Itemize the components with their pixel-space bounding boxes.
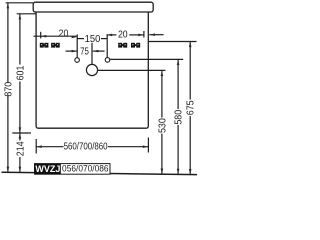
small circle right (105, 58, 110, 63)
mounting slots left group (40, 43, 60, 48)
extension line big circle (91, 43, 93, 65)
arrow 214 bottom (19, 167, 22, 173)
svg-text:20: 20 (59, 28, 69, 39)
top reference line (6, 2, 34, 4)
bottom baseline (2, 172, 198, 174)
arrow 560 right (143, 145, 149, 148)
reference line 675 (149, 41, 197, 43)
label 530 (156, 118, 168, 133)
arrow 601 bottom (19, 127, 22, 133)
arrow 530 bottom (161, 169, 164, 175)
label 601 (14, 66, 26, 81)
arrow at unit right edge (149, 33, 155, 36)
svg-text:675: 675 (184, 100, 196, 115)
dimension 75 lines (66, 50, 78, 52)
svg-text:150: 150 (85, 34, 101, 45)
arrow 870 top (7, 3, 10, 9)
countertop (33, 2, 153, 12)
arrow 580 top (177, 59, 180, 65)
dimension 601 line (19, 14, 21, 65)
arrow 75 right (93, 50, 99, 53)
dimension 870 line (7, 3, 9, 83)
slot white centers left (41, 44, 58, 45)
mounting slots right group (118, 43, 140, 48)
arrow 20-right right (138, 34, 144, 37)
arrow 214 top (19, 133, 22, 139)
slot white centers right (120, 44, 139, 45)
extension tick x148.4 bottom (147, 138, 149, 153)
svg-text:20: 20 (118, 29, 128, 40)
dimension 214 line (19, 133, 21, 141)
reference line 580 (110, 58, 183, 60)
svg-text:75: 75 (80, 46, 89, 57)
arrow 75 left (72, 50, 78, 53)
arrow 675 top (189, 42, 192, 48)
extension line left circle (76, 34, 78, 57)
dimension 580 line (177, 59, 179, 109)
extension tick x40.7 (40, 32, 42, 39)
unit top reference line (17, 13, 36, 15)
arrow 560 left (36, 145, 42, 148)
dimension line 20 right (107, 34, 117, 36)
dimension 675 line (189, 42, 191, 100)
unit body outline (36, 12, 148, 129)
svg-text:560/700/860: 560/700/860 (64, 140, 108, 151)
svg-text:214: 214 (14, 141, 26, 156)
svg-text:WVZJ: WVZJ (35, 164, 60, 174)
label 675 (184, 100, 196, 115)
type label box (35, 163, 111, 174)
arrow 675 bottom (189, 169, 192, 175)
arrow 601 top (19, 14, 22, 20)
extension tick x36.2 bottom (35, 139, 37, 154)
svg-text:870: 870 (2, 82, 14, 97)
svg-text:601: 601 (14, 66, 26, 81)
extension line right circle (106, 34, 108, 57)
label 214 (14, 141, 26, 156)
big circle (86, 64, 97, 75)
svg-text:056/070/086: 056/070/086 (62, 163, 109, 173)
label 870 (2, 82, 14, 97)
svg-text:530: 530 (156, 118, 168, 133)
dimension line 150 (77, 38, 84, 40)
tick at 601/214 junction (12, 132, 31, 134)
arrow 20-left left (41, 35, 47, 38)
dimension line 20 left (34, 35, 78, 37)
arrow 530 top (161, 70, 164, 76)
dimension 530 line (161, 70, 163, 117)
arrow 150 right / 20-right left (107, 34, 113, 37)
reference line 530 (98, 69, 166, 71)
arrow 580 bottom (177, 169, 180, 175)
arrow 870 bottom (7, 167, 10, 173)
arrow 20-left right / 150 left (72, 36, 78, 39)
small circle left (75, 58, 80, 63)
label 580 (172, 110, 184, 125)
outside arrow line right of unit (149, 34, 163, 36)
dimension 560/700/860 line (36, 146, 63, 148)
text backgrounds (64, 31, 129, 151)
extension tick x143.9 (143, 31, 145, 38)
svg-text:580: 580 (172, 110, 184, 125)
